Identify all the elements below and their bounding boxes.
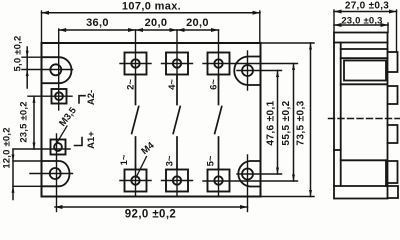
svg-text:M4: M4 [139, 140, 157, 157]
svg-text:5,0 ±0,2: 5,0 ±0,2 [13, 36, 24, 72]
svg-text:3~: 3~ [165, 155, 176, 166]
svg-text:27,0 ±0,3: 27,0 ±0,3 [345, 1, 389, 12]
svg-text:2~: 2~ [126, 79, 137, 90]
svg-text:20,0: 20,0 [145, 17, 168, 29]
svg-text:4~: 4~ [167, 79, 178, 90]
svg-text:92,0 ±0,2: 92,0 ±0,2 [125, 209, 176, 221]
svg-text:23,0 ±0,3: 23,0 ±0,3 [341, 16, 382, 27]
svg-text:A1+: A1+ [86, 131, 97, 149]
svg-text:107,0 max.: 107,0 max. [122, 1, 181, 13]
svg-text:47,6 ±0,1: 47,6 ±0,1 [266, 100, 277, 145]
svg-text:36,0: 36,0 [86, 17, 109, 29]
svg-text:73,5 ±0,3: 73,5 ±0,3 [296, 100, 307, 145]
svg-text:20,0: 20,0 [186, 17, 209, 29]
svg-text:12,0 ±0,2: 12,0 ±0,2 [2, 127, 13, 168]
svg-text:M3,5: M3,5 [57, 105, 79, 129]
svg-text:55,5 ±0,2: 55,5 ±0,2 [281, 100, 292, 145]
svg-text:A2-: A2- [86, 90, 97, 105]
svg-text:1~: 1~ [119, 154, 130, 165]
svg-text:23,5 ±0,2: 23,5 ±0,2 [19, 101, 30, 142]
svg-text:5~: 5~ [206, 155, 217, 166]
svg-text:6~: 6~ [209, 79, 220, 90]
